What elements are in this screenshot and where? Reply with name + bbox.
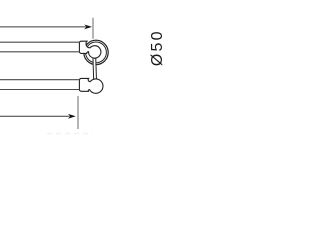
svg-text:Ø50: Ø50 (149, 29, 166, 66)
top bar tube bottom edge (0, 51, 80, 53)
faint ghost dashes near bottom (47, 133, 93, 135)
top bar tube top edge (0, 41, 80, 43)
lower bar tube top edge (0, 79, 80, 81)
lower bar tube bottom edge (0, 89, 80, 91)
wall flange outer circle (84, 40, 108, 64)
top dimension line (0, 26, 86, 28)
top extension line (92, 18, 94, 39)
top bar end cap and ball finial (79, 41, 100, 58)
lower bar end cap and ball finial (79, 78, 103, 93)
bottom dimension line (0, 115, 70, 117)
bottom extension line (77, 96, 79, 129)
top dimension arrowhead (84, 25, 92, 30)
vertical post (92, 53, 97, 80)
bottom dimension arrowhead (68, 114, 76, 119)
wall flange inner ring (86, 42, 107, 63)
